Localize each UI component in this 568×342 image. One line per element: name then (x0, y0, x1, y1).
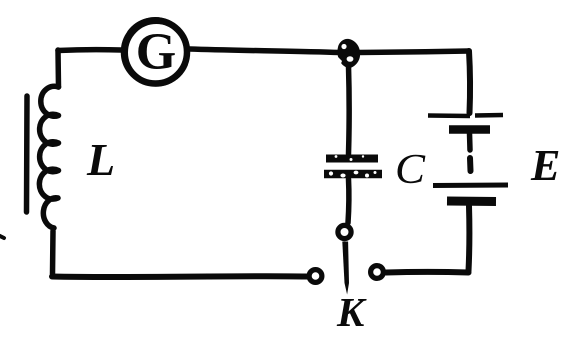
wire top middle (galvanometer to junction) (190, 49, 339, 53)
wire bottom left (corner to switch left terminal) (52, 273, 307, 280)
battery E inter-cell dash (467, 158, 474, 171)
wire bottom right (switch right terminal to corner) (386, 269, 469, 276)
capacitor C top plate (326, 155, 378, 161)
svg-text:K: K (336, 289, 367, 335)
galvanometer G circle U1 (124, 21, 187, 84)
switch K right terminal circle (371, 266, 384, 279)
switch K left terminal circle (309, 270, 322, 283)
wire capacitor branch lower (bottom plate to lever pivot) (345, 179, 351, 223)
node junction blob (solder dot) (337, 39, 360, 68)
switch K lever arm (342, 242, 349, 295)
inductor L core bar (24, 96, 30, 212)
battery E cell 1 long plate (428, 115, 503, 116)
svg-text:G: G (136, 24, 176, 81)
battery E cell 1 short thick plate (449, 125, 490, 134)
capacitor C bottom plate (324, 171, 382, 178)
svg-text:C: C (395, 147, 426, 193)
wire right vertical lower (battery to bottom wire) (466, 206, 473, 271)
wire top right (junction to top-right corner) (358, 51, 469, 53)
wire right vertical upper (corner down to battery) (469, 51, 470, 113)
svg-text:E: E (530, 141, 560, 190)
wire left vertical lower (coil bottom to bottom wire) (50, 231, 56, 274)
svg-text:L: L (86, 134, 115, 185)
inductor L coil winding (39, 86, 58, 228)
battery E cell 2 long plate (433, 183, 508, 189)
battery E inter-cell stub (467, 133, 473, 150)
switch K lever pivot circle (338, 225, 351, 238)
wire top-left horizontal (corner to galvanometer) (58, 47, 121, 53)
battery E cell 2 short thick plate (447, 197, 496, 207)
stray ink speck at left edge (0, 236, 4, 238)
wire left vertical upper (top corner down to coil) (55, 50, 61, 87)
wire capacitor branch upper (junction to top plate) (346, 66, 352, 154)
